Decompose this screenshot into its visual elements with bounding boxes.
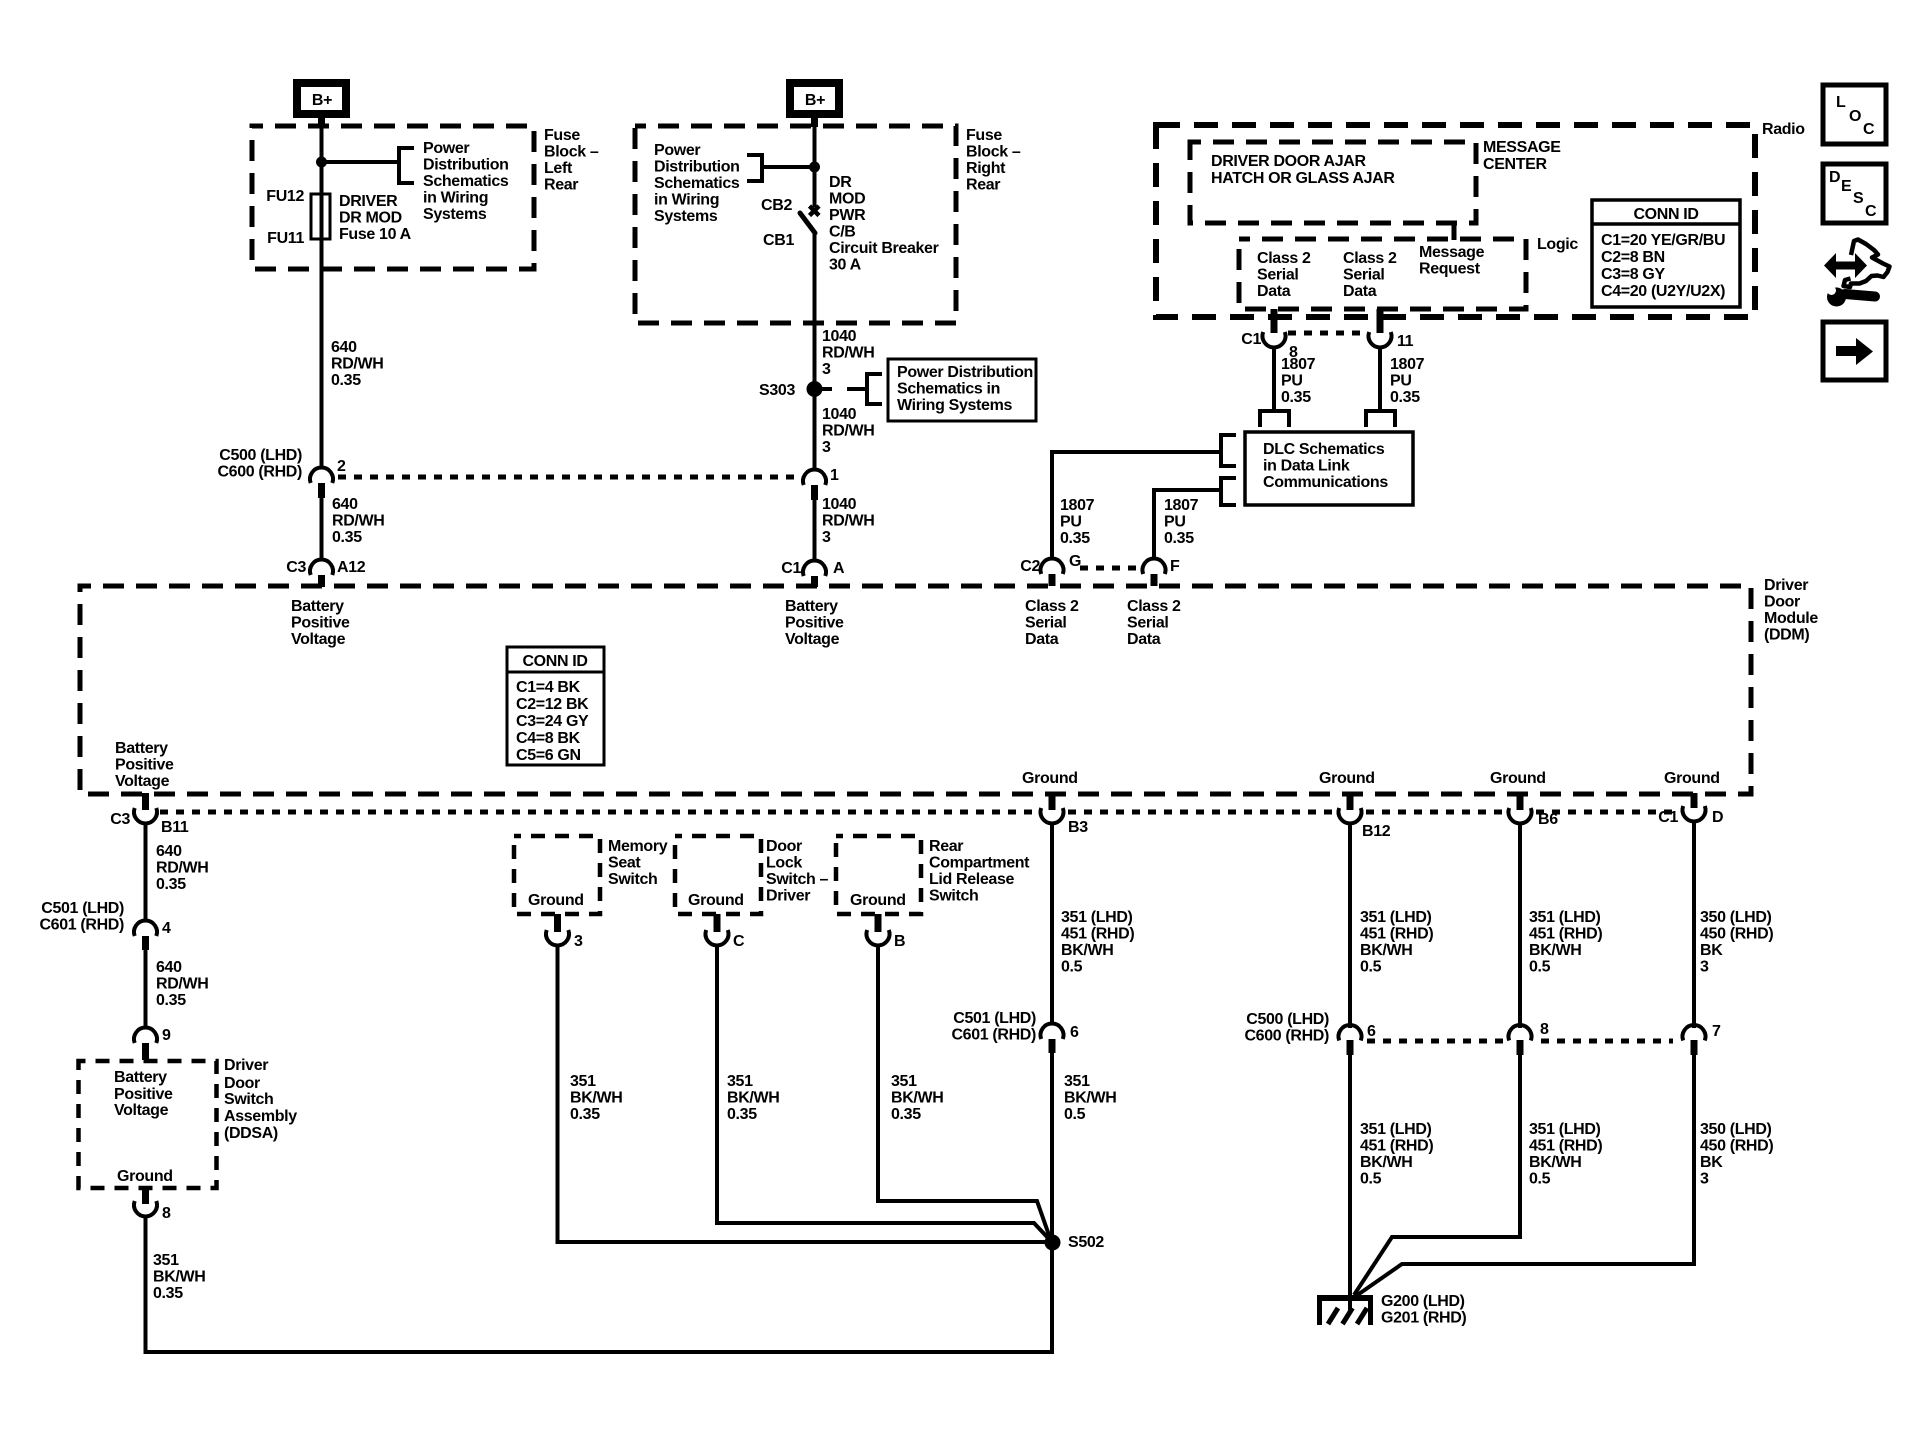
svg-text:BK/WH: BK/WH — [570, 1090, 622, 1107]
svg-text:MOD: MOD — [829, 191, 865, 208]
svg-text:C1: C1 — [1658, 809, 1678, 826]
wire pin8 to ground — [1354, 1054, 1520, 1295]
svg-text:DRIVER DOOR AJAR: DRIVER DOOR AJAR — [1211, 153, 1367, 170]
svg-text:C601 (RHD): C601 (RHD) — [39, 917, 124, 934]
svg-text:DR: DR — [829, 174, 852, 191]
wire label 1040 RD/WH 3 (below pin1) — [822, 496, 874, 546]
svg-text:BK/WH: BK/WH — [1064, 1090, 1116, 1107]
wire pin8 down to DLC bracket — [1272, 347, 1276, 409]
wire D to pin7 — [1692, 821, 1696, 1028]
svg-text:0.35: 0.35 — [156, 876, 186, 893]
stub logic pin 11 — [1377, 309, 1384, 333]
wire B12 to pin6 — [1348, 823, 1352, 1028]
svg-text:G201 (RHD): G201 (RHD) — [1381, 1310, 1466, 1327]
svg-text:Switch: Switch — [929, 888, 978, 905]
label Door Lock Switch - Driver — [766, 838, 829, 905]
wire B+ middle vertical — [813, 117, 817, 207]
bracket into DLC (pin 8) — [1260, 411, 1289, 427]
svg-text:0.5: 0.5 — [1529, 1171, 1551, 1188]
svg-text:Power: Power — [423, 140, 469, 157]
icon DESC box — [1823, 164, 1886, 223]
stub DDSA pin 8 — [142, 1189, 149, 1204]
svg-text:B+: B+ — [312, 92, 332, 109]
svg-text:Data: Data — [1343, 283, 1377, 300]
svg-text:Data: Data — [1025, 631, 1059, 648]
rear compartment lid release switch dashed box — [836, 836, 921, 914]
bracket symbol (to Power Distribution Schematics) — [399, 146, 414, 185]
svg-text:Schematics: Schematics — [654, 175, 740, 192]
svg-text:451 (RHD): 451 (RHD) — [1061, 926, 1134, 943]
svg-text:Voltage: Voltage — [114, 1102, 169, 1119]
svg-text:2: 2 — [337, 458, 346, 475]
svg-text:C2=12 BK: C2=12 BK — [516, 696, 589, 713]
label Driver Door Switch Assembly (DDSA) — [224, 1057, 297, 1142]
svg-text:FU12: FU12 — [266, 188, 304, 205]
logic dashed box — [1239, 239, 1526, 309]
stub door lock pin C — [714, 914, 721, 932]
splice S502 — [1045, 1235, 1061, 1251]
label Battery Positive Voltage (A12 pin) — [291, 598, 350, 648]
svg-text:Block –: Block – — [966, 144, 1021, 161]
svg-text:C2=8 BN: C2=8 BN — [1601, 249, 1665, 266]
connector pin F (DDM) — [1143, 559, 1166, 586]
svg-text:MESSAGE: MESSAGE — [1483, 139, 1561, 156]
svg-text:(DDM): (DDM) — [1764, 627, 1809, 644]
svg-text:Communications: Communications — [1263, 474, 1388, 491]
svg-text:Lid Release: Lid Release — [929, 871, 1015, 888]
wire label 351 (LHD) 451 (RHD) BK/WH 0.5 (B3) — [1061, 909, 1134, 976]
svg-text:451 (RHD): 451 (RHD) — [1529, 926, 1602, 943]
stub rear compartment pin B — [875, 914, 882, 932]
svg-text:BK: BK — [1700, 942, 1723, 959]
svg-text:PU: PU — [1060, 514, 1082, 531]
svg-text:Voltage: Voltage — [291, 631, 346, 648]
svg-text:Seat: Seat — [608, 855, 641, 872]
svg-text:BK: BK — [1700, 1154, 1723, 1171]
svg-text:Data: Data — [1257, 283, 1291, 300]
stub from S303 to bracket — [822, 387, 865, 391]
svg-text:351 (LHD): 351 (LHD) — [1529, 909, 1601, 926]
svg-text:C501 (LHD): C501 (LHD) — [953, 1010, 1036, 1027]
svg-text:C5=6 GN: C5=6 GN — [516, 747, 581, 764]
svg-text:DRIVER: DRIVER — [339, 193, 398, 210]
svg-text:8: 8 — [1540, 1021, 1549, 1038]
svg-text:0.35: 0.35 — [1060, 530, 1090, 547]
svg-text:BK/WH: BK/WH — [1360, 1154, 1412, 1171]
svg-text:Class 2: Class 2 — [1257, 250, 1311, 267]
svg-text:Ground: Ground — [1022, 770, 1078, 787]
svg-text:Power: Power — [654, 142, 700, 159]
svg-text:BK/WH: BK/WH — [1529, 942, 1581, 959]
svg-text:Logic: Logic — [1537, 236, 1578, 253]
bracket DLC left upper — [1221, 435, 1236, 466]
svg-text:C: C — [1863, 121, 1875, 138]
wire label 351/451 BK/WH 0.5 (B6 lower) — [1529, 1121, 1602, 1188]
svg-text:Power Distribution: Power Distribution — [897, 364, 1033, 381]
svg-text:C4=20 (U2Y/U2X): C4=20 (U2Y/U2X) — [1601, 283, 1725, 300]
svg-text:351 (LHD): 351 (LHD) — [1061, 909, 1133, 926]
svg-text:RD/WH: RD/WH — [331, 356, 383, 373]
svg-text:HATCH OR GLASS AJAR: HATCH OR GLASS AJAR — [1211, 170, 1395, 187]
svg-text:F: F — [1170, 558, 1180, 575]
svg-text:Driver: Driver — [224, 1057, 268, 1074]
label Class 2 Serial Data (logic left) — [1257, 250, 1311, 300]
fuse FU12/FU11 DRIVER DR MOD — [311, 194, 330, 239]
label DLC Schematics in Data Link Communications — [1263, 441, 1388, 491]
svg-text:Voltage: Voltage — [785, 631, 840, 648]
label Message Request — [1419, 244, 1485, 278]
svg-text:D: D — [1829, 169, 1840, 186]
label Battery Positive Voltage (DDSA) — [114, 1069, 173, 1119]
svg-text:CB1: CB1 — [763, 232, 794, 249]
svg-text:Rear: Rear — [929, 838, 963, 855]
label Class 2 Serial Data (logic right) — [1343, 250, 1397, 300]
svg-text:Ground: Ground — [1319, 770, 1375, 787]
wire label 351 BK/WH 0.5 — [1064, 1073, 1116, 1123]
stub below B+ middle — [811, 118, 818, 127]
connector C501 pin 4 — [134, 921, 157, 950]
svg-text:C3=8 GY: C3=8 GY — [1601, 266, 1665, 283]
svg-text:450 (RHD): 450 (RHD) — [1700, 1138, 1773, 1155]
stub DDM pin D — [1691, 793, 1698, 808]
svg-text:PU: PU — [1390, 373, 1412, 390]
label Fuse Block - Right Rear — [966, 127, 1021, 194]
label Memory Seat Switch — [608, 838, 668, 888]
svg-text:1807: 1807 — [1281, 356, 1316, 373]
svg-text:Door: Door — [224, 1075, 260, 1092]
wire label 351/451 BK/WH 0.5 (B12 lower) — [1360, 1121, 1433, 1188]
wire DLC to F — [1154, 490, 1221, 559]
svg-text:Battery: Battery — [115, 740, 168, 757]
svg-text:in Wiring: in Wiring — [654, 192, 719, 209]
connector C500 pin 8 — [1509, 1025, 1532, 1055]
svg-text:BK/WH: BK/WH — [153, 1269, 205, 1286]
svg-text:3: 3 — [822, 361, 831, 378]
svg-text:A: A — [833, 560, 845, 577]
svg-text:3: 3 — [1700, 959, 1709, 976]
junction on B+ middle feed — [809, 162, 820, 173]
stub memory seat pin 3 — [554, 914, 561, 932]
svg-text:Driver: Driver — [1764, 577, 1808, 594]
connector C3 pin A12 (DDM) — [310, 560, 333, 587]
svg-text:450 (RHD): 450 (RHD) — [1700, 926, 1773, 943]
svg-text:Distribution: Distribution — [423, 157, 509, 174]
wire to schematic-reference bracket — [322, 160, 398, 164]
svg-text:Driver: Driver — [766, 888, 810, 905]
label C500 (LHD) C600 (RHD) — [217, 447, 302, 481]
svg-text:CB2: CB2 — [761, 197, 792, 214]
wire label 350/450 BK 3 (lower) — [1700, 1121, 1773, 1188]
svg-text:Switch: Switch — [608, 871, 657, 888]
svg-text:E: E — [1841, 178, 1852, 195]
circuit breaker blade — [800, 213, 815, 233]
wire pin7 to ground — [1356, 1054, 1694, 1296]
svg-text:Schematics: Schematics — [423, 173, 509, 190]
svg-text:Rear: Rear — [544, 177, 578, 194]
bracket symbol (to Power Distribution box) — [867, 372, 882, 406]
svg-text:Rear: Rear — [966, 177, 1000, 194]
svg-text:RD/WH: RD/WH — [332, 513, 384, 530]
connector pin B — [866, 930, 889, 945]
svg-text:C1=20 YE/GR/BU: C1=20 YE/GR/BU — [1601, 232, 1725, 249]
wire label 640 RD/WH 0.35 (pin4) — [156, 959, 208, 1009]
dashed in-connector line 8-11 — [1288, 331, 1367, 336]
svg-text:Switch –: Switch – — [766, 871, 829, 888]
wire pin8 to S502 — [146, 1216, 1053, 1352]
message center display box — [1190, 142, 1476, 223]
label DRIVER DR MOD Fuse 10 A — [339, 193, 412, 243]
connector DDSA pin 8 — [134, 1201, 157, 1216]
stub message box to logic box — [1452, 223, 1457, 240]
svg-text:351: 351 — [727, 1073, 753, 1090]
svg-text:CONN ID: CONN ID — [1633, 206, 1698, 223]
svg-text:Assembly: Assembly — [224, 1108, 297, 1125]
svg-text:C3=24 GY: C3=24 GY — [516, 713, 589, 730]
label G200 (LHD) G201 (RHD) — [1381, 1293, 1466, 1327]
wire label 1807 PU 0.35 (pin 8) — [1281, 356, 1316, 406]
svg-text:B: B — [894, 933, 905, 950]
svg-text:CONN ID: CONN ID — [522, 653, 587, 670]
svg-text:351: 351 — [153, 1252, 179, 1269]
svg-text:1807: 1807 — [1390, 356, 1425, 373]
wire breaker to S303 — [813, 231, 817, 470]
svg-text:0.35: 0.35 — [891, 1106, 921, 1123]
svg-text:0.35: 0.35 — [1390, 389, 1420, 406]
svg-text:C1: C1 — [1241, 331, 1261, 348]
svg-text:3: 3 — [822, 529, 831, 546]
wire label 1807 PU 0.35 (F) — [1164, 497, 1199, 547]
svg-text:Serial: Serial — [1127, 615, 1169, 632]
wire label 351 BK/WH 0.35 (pin3) — [570, 1073, 622, 1123]
svg-text:G: G — [1069, 553, 1081, 570]
connector C500 pin 7 — [1682, 1025, 1705, 1055]
svg-text:350 (LHD): 350 (LHD) — [1700, 909, 1772, 926]
svg-text:0.35: 0.35 — [331, 372, 361, 389]
svg-text:C2: C2 — [1020, 558, 1040, 575]
svg-text:0.5: 0.5 — [1529, 959, 1551, 976]
connector C3 pin B11 — [134, 808, 157, 823]
svg-text:PWR: PWR — [829, 207, 866, 224]
svg-text:Battery: Battery — [114, 1069, 167, 1086]
svg-text:Ground: Ground — [850, 892, 906, 909]
svg-text:Ground: Ground — [688, 892, 744, 909]
svg-text:in Data Link: in Data Link — [1263, 458, 1350, 475]
label C500 (LHD) C600 (RHD) (bottom) — [1244, 1011, 1329, 1045]
connector C1 pin 8 (radio) — [1263, 332, 1286, 347]
label Battery Positive Voltage (B11 pin) — [115, 740, 174, 790]
connector C501 pin 6 — [1041, 1024, 1064, 1053]
dashed in-connector line G-F — [1080, 566, 1139, 571]
wire B+ left vertical — [320, 117, 324, 468]
svg-text:1040: 1040 — [822, 328, 857, 345]
svg-text:1040: 1040 — [822, 496, 857, 513]
svg-text:C601 (RHD): C601 (RHD) — [951, 1027, 1036, 1044]
svg-text:C501 (LHD): C501 (LHD) — [41, 900, 124, 917]
svg-text:0.5: 0.5 — [1360, 959, 1382, 976]
wire B11 to pin4 — [144, 823, 148, 920]
svg-text:0.35: 0.35 — [727, 1106, 757, 1123]
svg-text:C3: C3 — [286, 559, 306, 576]
svg-text:0.35: 0.35 — [1164, 530, 1194, 547]
svg-text:Systems: Systems — [423, 206, 487, 223]
label Power Distribution Schematics in Wiring Systems (box) — [897, 364, 1033, 414]
connector C500/C600 pin 2 — [310, 468, 333, 498]
power symbol B+ (middle) — [786, 79, 843, 118]
icon LOC box — [1823, 85, 1886, 144]
svg-text:1807: 1807 — [1060, 497, 1095, 514]
svg-text:451 (RHD): 451 (RHD) — [1360, 926, 1433, 943]
svg-text:C500 (LHD): C500 (LHD) — [1246, 1011, 1329, 1028]
wire B6 to pin8 — [1518, 823, 1522, 1028]
connector pin B3 — [1041, 808, 1064, 823]
svg-text:Schematics in: Schematics in — [897, 381, 1000, 398]
svg-text:C/B: C/B — [829, 224, 856, 241]
svg-text:RD/WH: RD/WH — [156, 976, 208, 993]
svg-text:1807: 1807 — [1164, 497, 1199, 514]
connector pin 1 — [803, 470, 826, 500]
label DR MOD PWR C/B Circuit Breaker 30 A — [829, 174, 939, 274]
bracket into DLC (pin 11) — [1366, 411, 1395, 427]
wire label 1040 RD/WH 3 (above S303) — [822, 328, 874, 378]
svg-text:S: S — [1853, 190, 1864, 207]
wire label 640 RD/WH 0.35 (above C500) — [331, 339, 383, 389]
wire label 1040 RD/WH 3 (S303 to pin1) — [822, 406, 874, 456]
svg-text:640: 640 — [332, 496, 358, 513]
svg-text:7: 7 — [1712, 1023, 1721, 1040]
wire pinC to S502 — [717, 945, 1049, 1239]
svg-text:Battery: Battery — [785, 598, 838, 615]
svg-text:Wiring Systems: Wiring Systems — [897, 397, 1012, 414]
wire label 351 BK/WH 0.35 (pinC) — [727, 1073, 779, 1123]
svg-text:0.35: 0.35 — [153, 1285, 183, 1302]
connector pin B6 — [1509, 808, 1532, 823]
connector C1 pin 11 (radio) — [1369, 332, 1392, 347]
svg-text:Switch: Switch — [224, 1091, 273, 1108]
radio outer dashed box — [1156, 125, 1755, 317]
svg-text:B11: B11 — [161, 819, 189, 836]
svg-text:S303: S303 — [759, 382, 795, 399]
ground symbol G200/G201 — [1317, 1295, 1373, 1325]
svg-text:Compartment: Compartment — [929, 855, 1030, 872]
svg-text:351: 351 — [570, 1073, 596, 1090]
svg-text:Fuse: Fuse — [544, 127, 580, 144]
box Power Distribution Schematics in Wiring Systems — [888, 359, 1036, 421]
wire label 640 RD/WH 0.35 (below C500) — [332, 496, 384, 546]
svg-text:351: 351 — [1064, 1073, 1090, 1090]
svg-text:0.35: 0.35 — [332, 529, 362, 546]
dashed in-harness line B11 to D — [160, 810, 1678, 815]
label C501 (LHD) C601 (RHD) (left) — [39, 900, 124, 934]
svg-text:Right: Right — [966, 160, 1006, 177]
svg-text:L: L — [1836, 94, 1846, 111]
svg-text:Class 2: Class 2 — [1025, 598, 1079, 615]
svg-text:640: 640 — [156, 843, 182, 860]
svg-text:0.35: 0.35 — [570, 1106, 600, 1123]
label Rear Compartment Lid Release Switch — [929, 838, 1030, 905]
bracket DLC left lower — [1221, 478, 1236, 505]
svg-text:(DDSA): (DDSA) — [224, 1125, 278, 1142]
junction on B+ left feed — [316, 157, 327, 168]
svg-text:351 (LHD): 351 (LHD) — [1360, 909, 1432, 926]
stub below B+ left — [318, 118, 325, 127]
driver door module DDM dashed box — [80, 586, 1751, 794]
svg-text:Message: Message — [1419, 244, 1485, 261]
svg-text:0.35: 0.35 — [1281, 389, 1311, 406]
icon schematic reference (arrows and wrench) — [1824, 240, 1890, 307]
svg-text:30 A: 30 A — [829, 257, 862, 274]
svg-text:Ground: Ground — [528, 892, 584, 909]
box DLC Schematics in Data Link Communications — [1245, 432, 1413, 505]
connector pin 3 — [546, 930, 569, 945]
svg-text:4: 4 — [162, 920, 171, 937]
svg-text:11: 11 — [1397, 333, 1414, 350]
label Power Distribution Schematics in Wiring Systems (middle) — [654, 142, 740, 225]
svg-text:Door: Door — [766, 838, 802, 855]
svg-text:Ground: Ground — [1664, 770, 1720, 787]
svg-text:G200 (LHD): G200 (LHD) — [1381, 1293, 1465, 1310]
svg-text:Positive: Positive — [114, 1086, 173, 1103]
connector pin C — [705, 930, 728, 945]
svg-text:BK/WH: BK/WH — [891, 1090, 943, 1107]
wire label 350/450 BK 3 (upper) — [1700, 909, 1773, 976]
svg-text:RD/WH: RD/WH — [156, 860, 208, 877]
svg-text:Class 2: Class 2 — [1343, 250, 1397, 267]
connector C1 pin A (DDM) — [803, 561, 826, 587]
svg-text:BK/WH: BK/WH — [1061, 942, 1113, 959]
label C501 (LHD) C601 (RHD) (B3 column) — [951, 1010, 1036, 1044]
svg-text:351 (LHD): 351 (LHD) — [1529, 1121, 1601, 1138]
svg-text:C: C — [733, 933, 745, 950]
svg-text:3: 3 — [574, 933, 583, 950]
svg-text:Lock: Lock — [766, 855, 802, 872]
svg-text:451 (RHD): 451 (RHD) — [1360, 1138, 1433, 1155]
svg-text:BK/WH: BK/WH — [727, 1090, 779, 1107]
wire pinB to S502 — [878, 945, 1050, 1238]
svg-text:8: 8 — [162, 1205, 171, 1222]
wire DLC to C2 G — [1052, 452, 1221, 559]
svg-text:Circuit Breaker: Circuit Breaker — [829, 240, 939, 257]
svg-text:6: 6 — [1070, 1024, 1079, 1041]
svg-text:1040: 1040 — [822, 406, 857, 423]
wire junction to bracket (right rear) — [763, 165, 814, 169]
svg-text:Positive: Positive — [291, 615, 350, 632]
svg-text:C3: C3 — [110, 811, 130, 828]
svg-text:C4=8 BK: C4=8 BK — [516, 730, 581, 747]
svg-text:Serial: Serial — [1025, 615, 1067, 632]
svg-text:Data: Data — [1127, 631, 1161, 648]
fuse block left rear box — [252, 126, 534, 269]
wire label 1807 PU 0.35 (pin 11) — [1390, 356, 1425, 406]
svg-text:Distribution: Distribution — [654, 159, 740, 176]
dashed in-connector line 6-8 and 8-7 — [1367, 1039, 1673, 1044]
svg-text:Class 2: Class 2 — [1127, 598, 1181, 615]
svg-text:O: O — [1849, 108, 1861, 125]
CONN ID table (radio) — [1592, 200, 1740, 307]
svg-text:Block –: Block – — [544, 144, 599, 161]
wire pin3 to S502 — [558, 945, 1053, 1243]
wire pin6 to ground — [1348, 1054, 1352, 1297]
wire B3 to pin6 — [1050, 823, 1054, 1023]
stub DDM pin B3 — [1049, 793, 1056, 810]
wire pin11 down to DLC bracket — [1378, 347, 1382, 409]
svg-text:9: 9 — [162, 1027, 171, 1044]
svg-text:Positive: Positive — [785, 615, 844, 632]
svg-text:C500 (LHD): C500 (LHD) — [219, 447, 302, 464]
wire label 351/451 BK/WH 0.5 (B6 upper) — [1529, 909, 1602, 976]
svg-text:CENTER: CENTER — [1483, 156, 1547, 173]
svg-text:RD/WH: RD/WH — [822, 345, 874, 362]
memory seat switch dashed box — [514, 836, 600, 914]
